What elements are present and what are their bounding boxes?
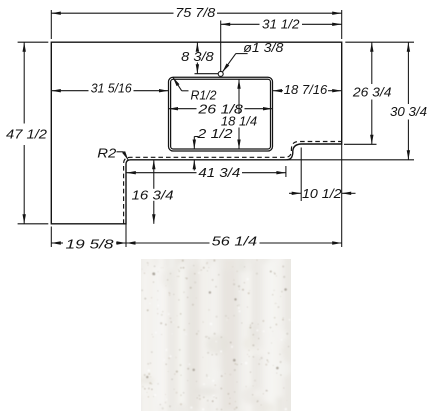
svg-text:16 3/4: 16 3/4 — [132, 187, 174, 202]
dimension 56 1/4 — [341, 144, 343, 247]
leader R2 corner radius — [117, 151, 124, 153]
leader dia 1 3/8 faucet hole — [222, 53, 236, 72]
dimension 41 3/4 — [285, 166, 287, 177]
svg-text:ø1 3/8: ø1 3/8 — [243, 40, 284, 55]
dimension 2 1/2 — [193, 137, 195, 150]
svg-text:19 5/8: 19 5/8 — [66, 237, 115, 252]
dimension 30 3/4 — [287, 159, 414, 161]
svg-text:2 1/2: 2 1/2 — [196, 126, 233, 141]
dimension 31 5/16 — [51, 90, 88, 92]
dimension 19 5/8 — [50, 227, 52, 248]
svg-text:18 7/16: 18 7/16 — [284, 82, 328, 97]
dimension 16 3/4 — [153, 160, 155, 189]
dashed edge line — [124, 142, 342, 224]
faucet hole center line — [220, 21, 222, 72]
faucet hole circle — [218, 71, 223, 76]
dimension 18 1/4 — [238, 79, 240, 114]
svg-text:41 3/4: 41 3/4 — [198, 165, 240, 180]
leader R1/2 sink corner radius — [173, 77, 182, 91]
svg-text:56 1/4: 56 1/4 — [212, 234, 257, 249]
svg-text:75 7/8: 75 7/8 — [175, 5, 216, 20]
svg-text:R2: R2 — [97, 145, 117, 160]
svg-text:10 1/2: 10 1/2 — [302, 186, 342, 201]
dimension 47 1/2 — [18, 41, 49, 43]
dimension 31 1/2 — [221, 23, 260, 25]
svg-text:31 1/2: 31 1/2 — [262, 16, 300, 31]
dimension 8 3/8 — [195, 73, 219, 75]
svg-text:8 3/8: 8 3/8 — [181, 49, 214, 64]
dimension 26 3/4 — [345, 41, 414, 43]
sink cutout outer — [169, 77, 273, 151]
countertop outline — [51, 42, 341, 224]
dimension 10 1/2 — [300, 148, 302, 202]
sink cutout inner — [171, 79, 271, 149]
svg-text:47 1/2: 47 1/2 — [6, 127, 48, 142]
svg-text:30 3/4: 30 3/4 — [390, 104, 427, 119]
dimension 75 7/8 — [50, 10, 52, 39]
svg-text:31 5/16: 31 5/16 — [91, 81, 133, 96]
dimension 26 1/8 — [169, 108, 197, 110]
svg-text:26 3/4: 26 3/4 — [352, 85, 392, 100]
svg-text:R1/2: R1/2 — [191, 87, 218, 102]
dimension 18 7/16 — [273, 90, 284, 92]
